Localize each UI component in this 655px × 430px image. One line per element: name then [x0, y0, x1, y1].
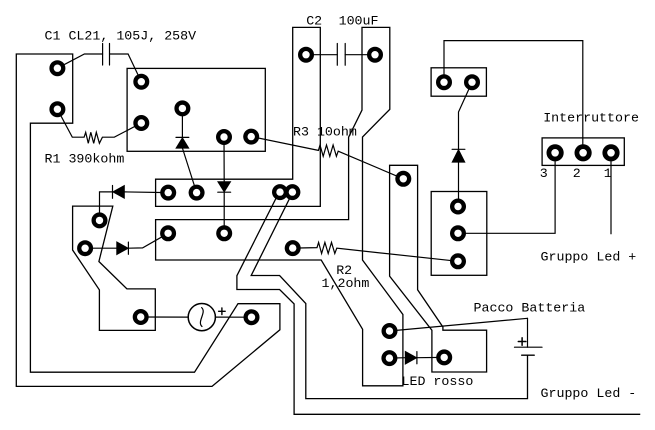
- wire AC source left lead: [141, 316, 189, 318]
- pad T1 b: [49, 101, 65, 117]
- pad rect#2 d: [133, 115, 149, 131]
- wire+diode D4 (pad p right to pad l): [85, 233, 168, 248]
- pad rect#2 f: [216, 129, 232, 145]
- diode D2 triangle (pointing down): [218, 182, 230, 192]
- svg-text:R1 390kohm: R1 390kohm: [45, 151, 125, 166]
- pad T1 top a: [49, 60, 65, 76]
- diode D4 bar: [127, 242, 129, 254]
- pad rect#8 w: [450, 199, 466, 215]
- diode D4 triangle (pointing right): [117, 242, 128, 254]
- wire Pacco Batteria link (pad t to battery plus lead): [390, 318, 528, 331]
- pad rect#6 t: [382, 323, 398, 339]
- wire diode D6 to rect#8 top pad: [458, 162, 460, 207]
- svg-text:LED rosso: LED rosso: [402, 374, 474, 389]
- resistor R2 zigzag + wires: [293, 242, 458, 261]
- svg-text:C1 CL21, 105J, 258V: C1 CL21, 105J, 258V: [45, 28, 197, 43]
- pad P2 r: [244, 309, 260, 325]
- LED D5 triangle (pointing right): [405, 352, 416, 364]
- trace T1 outline (left big copper trace from C1 pads to AC source pad): [16, 54, 280, 386]
- svg-text:R3 10ohm: R3 10ohm: [293, 124, 357, 139]
- wire Interruttore pad 1 stub (Gruppo Led +): [610, 153, 612, 234]
- svg-text:Pacco Batteria: Pacco Batteria: [474, 301, 586, 316]
- pad rect#8 x: [450, 225, 466, 241]
- AC source squiggle: [200, 308, 203, 327]
- pad Interruttore 2: [575, 144, 592, 161]
- trace rect#8 outline (middle right 3-pad connector): [431, 192, 487, 276]
- pad rect#2 g: [243, 129, 259, 145]
- pad Interruttore 1: [602, 144, 619, 161]
- trace rect#3 + chimney to C2 left pad: [156, 27, 321, 206]
- pad P1 p: [77, 240, 93, 256]
- pad rect#3 h: [160, 185, 176, 201]
- diode D3 bar: [112, 186, 114, 199]
- pad rect#6 u (LED anode): [381, 350, 397, 366]
- wire+diode D1 (pad e down to pad i): [182, 108, 196, 192]
- wire+diode D3 (pad o up and right to pad h): [100, 192, 169, 221]
- wire C2 left lead: [306, 54, 337, 56]
- wire C1 right lead: [110, 54, 142, 82]
- pad P1 q: [133, 309, 149, 325]
- diode D6 triangle (pointing up): [452, 150, 464, 162]
- svg-text:Interruttore: Interruttore: [543, 111, 639, 126]
- pad rect#8 y: [450, 253, 466, 269]
- wire rect#10 left pad up and over to Interruttore pad 2: [444, 41, 583, 153]
- svg-text:3: 3: [540, 166, 548, 181]
- capacitor C2 plates: [337, 44, 345, 66]
- resistor R3 link wire + zigzag: [251, 137, 403, 179]
- pad rect#2 c: [133, 74, 149, 90]
- trace rect#2 outline (top middle rectangle): [127, 68, 265, 151]
- diode D1 triangle (pointing up): [176, 138, 188, 148]
- pad twin j: [272, 184, 288, 200]
- pad C2 right: [367, 47, 383, 63]
- wire rect#8 middle pad to Interruttore pad 3: [458, 153, 555, 234]
- pad R2 left n: [285, 240, 301, 256]
- battery bottom plate (short, thick): [522, 354, 535, 356]
- wire rect#10 right pad down to diode D6: [459, 82, 473, 149]
- svg-text:1: 1: [604, 166, 612, 181]
- LED D5 bar: [416, 352, 418, 364]
- pad Interruttore 3: [547, 144, 564, 161]
- trace rect#4 + chimney to C2 right pad + branch down to LED column: [156, 27, 403, 385]
- battery top plate (long): [515, 346, 543, 348]
- diode D3 triangle (pointing left): [113, 186, 124, 198]
- diode D6 bar: [452, 148, 465, 150]
- battery plus lead: [527, 318, 529, 347]
- connector Interruttore rect#9 outline: [542, 138, 624, 166]
- pads: [49, 47, 619, 366]
- svg-text:C2: C2: [306, 13, 322, 28]
- pad T3 s: [395, 171, 411, 187]
- svg-text:2: 2: [573, 166, 581, 181]
- svg-text:100uF: 100uF: [339, 13, 379, 28]
- pad C2 left: [298, 47, 314, 63]
- wire C2 right lead: [345, 54, 375, 56]
- wire LED left lead: [389, 356, 444, 359]
- pad holes: [54, 51, 615, 362]
- pad twin k: [284, 184, 300, 200]
- trace T3 (pad8 box) + battery box rect#7: [390, 165, 487, 372]
- wire+diode D2 (pad f down to pad m): [223, 137, 225, 233]
- pad rect#4 m: [216, 225, 232, 241]
- diode D2 bar: [218, 191, 231, 193]
- trace rect#10 outline (top right 2-pad box): [431, 68, 486, 96]
- pad P1 o: [92, 212, 108, 228]
- pad rect#2 e: [174, 100, 190, 116]
- trace channel boundary B (twin pad right to battery minus rail): [251, 192, 527, 399]
- AC source plus sign: [219, 308, 226, 315]
- resistor R1 zigzag: [57, 109, 141, 143]
- capacitor C1 plates: [103, 44, 110, 66]
- svg-text:Gruppo Led -: Gruppo Led -: [541, 386, 637, 401]
- pad rect#7 v (battery): [436, 349, 452, 365]
- wire C1 left lead: [57, 54, 102, 68]
- trace P1 outline (around two diode pads, left): [73, 206, 156, 330]
- pad rect#10 aa: [464, 74, 480, 90]
- trace channel boundary A (twin pad left to Gruppo Led - rail): [237, 192, 640, 414]
- svg-text:1,2ohm: 1,2ohm: [322, 276, 370, 291]
- battery plus sign: [518, 338, 526, 346]
- AC source circle: [188, 304, 215, 331]
- wire AC source right lead: [215, 316, 251, 318]
- svg-text:Gruppo Led +: Gruppo Led +: [541, 250, 637, 265]
- pad rect#10 z: [436, 74, 452, 90]
- pad rect#4 l: [160, 225, 176, 241]
- diode D1 bar: [176, 136, 189, 138]
- pad rect#3 i: [189, 185, 205, 201]
